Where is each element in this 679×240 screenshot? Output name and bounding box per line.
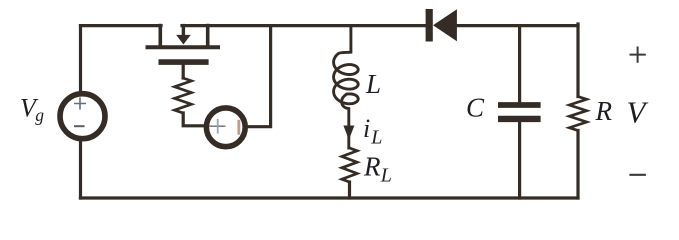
diode D1 cathode bar bbox=[426, 9, 433, 42]
dependent source U1 bbox=[206, 108, 245, 147]
wire bottom rail bbox=[81, 196, 579, 199]
svg-text:R: R bbox=[363, 152, 381, 182]
label Vg minus sign bbox=[74, 125, 85, 127]
svg-text:g: g bbox=[35, 105, 44, 125]
current arrow iL bbox=[343, 126, 354, 140]
capacitor C bottom plate bbox=[501, 116, 537, 122]
svg-text:L: L bbox=[370, 127, 382, 149]
transistor Q1 source stub bbox=[206, 26, 210, 46]
transistor Q1 arrow bbox=[182, 26, 185, 36]
wire right branch top bbox=[576, 24, 579, 97]
svg-text:C: C bbox=[466, 93, 485, 123]
resistor gate zigzag bbox=[175, 78, 192, 113]
capacitor C top plate bbox=[501, 102, 538, 108]
wire top middle rail bbox=[182, 24, 426, 27]
voltage source Vg bbox=[60, 94, 105, 139]
label plus output bbox=[631, 48, 645, 62]
svg-text:R: R bbox=[595, 96, 613, 126]
diode D1 triangle bbox=[433, 9, 457, 41]
resistor R zigzag bbox=[569, 97, 586, 131]
transistor Q1 gate bar bbox=[161, 59, 206, 65]
capacitor branch wire bottom bbox=[518, 122, 521, 199]
svg-text:L: L bbox=[380, 165, 392, 187]
wire left branch bbox=[79, 26, 82, 198]
label minus output bbox=[631, 174, 645, 176]
wire gate lead bbox=[182, 65, 185, 79]
label Vg plus sign bbox=[74, 98, 86, 110]
wire source to top rail bbox=[246, 26, 271, 127]
transistor Q1 drain stub bbox=[159, 26, 163, 46]
transistor Q1 channel bar bbox=[148, 45, 219, 49]
label bar inside source bbox=[237, 120, 239, 135]
inductor L bbox=[334, 27, 359, 148]
wire R to bottom rail bbox=[576, 131, 579, 199]
wire top right rail bbox=[455, 24, 578, 27]
label plus inside source bbox=[210, 125, 226, 127]
resistor RL zigzag bbox=[342, 148, 357, 182]
capacitor branch wire top bbox=[518, 26, 521, 102]
wire gate resistor to source bbox=[183, 113, 204, 126]
svg-text:L: L bbox=[365, 69, 381, 99]
svg-text:i: i bbox=[363, 114, 370, 143]
svg-text:V: V bbox=[627, 94, 649, 129]
wire RL to bottom rail bbox=[348, 182, 351, 198]
wire top-left rail bbox=[81, 24, 162, 27]
